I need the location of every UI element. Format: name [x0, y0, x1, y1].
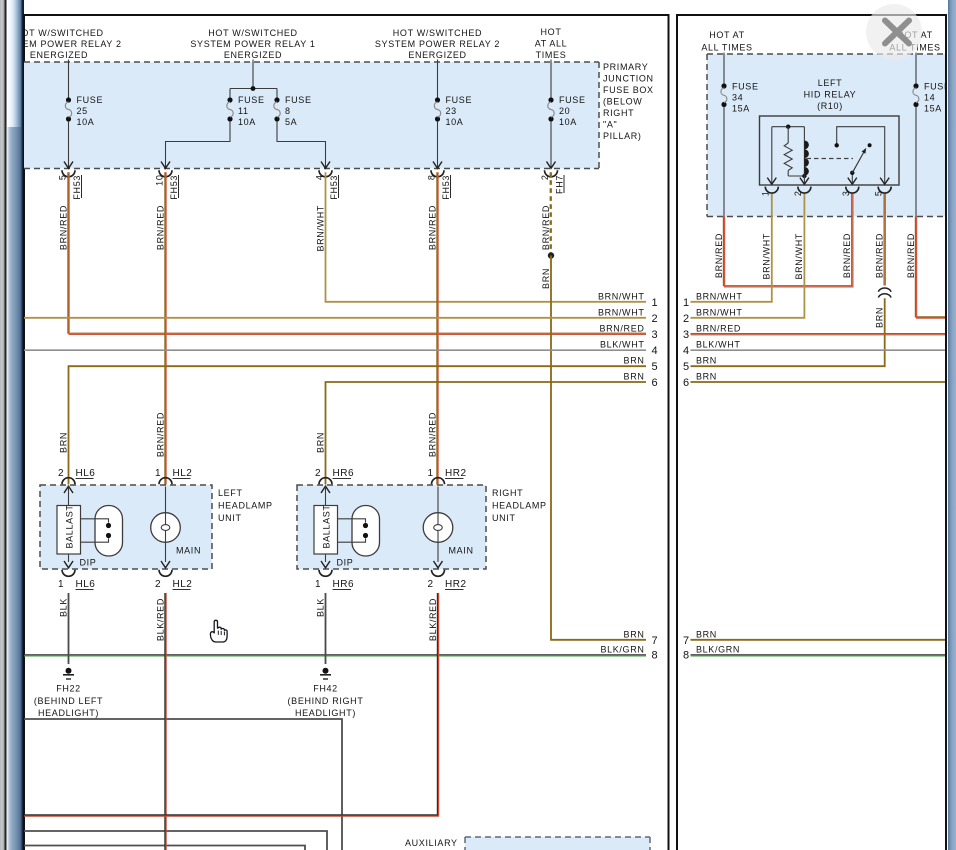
connector FH53 pin 4: [314, 170, 339, 199]
svg-text:HL2: HL2: [173, 468, 193, 479]
dip bulb capsule (left): [81, 506, 123, 557]
pin 2 HL2 (bottom): [155, 570, 192, 590]
svg-text:FUSE: FUSE: [559, 95, 586, 105]
svg-text:HR2: HR2: [445, 579, 467, 590]
svg-text:BRN/WHT: BRN/WHT: [696, 308, 743, 318]
connector FH53 pin 10: [154, 170, 179, 199]
ground FH22: [34, 668, 103, 718]
bus 4 BLK/WHT: [24, 349, 646, 351]
fuse 14 15A: [913, 82, 951, 114]
svg-text:BRN/RED: BRN/RED: [696, 324, 741, 334]
svg-text:HL6: HL6: [76, 468, 96, 479]
svg-text:BRN/RED: BRN/RED: [842, 233, 852, 278]
svg-text:BLK: BLK: [58, 598, 68, 617]
wire HL6 dip branch: [68, 487, 70, 563]
title: hot at all times (above fuse 14): [889, 30, 940, 53]
svg-text:2: 2: [793, 191, 803, 197]
svg-text:2: 2: [427, 579, 433, 590]
svg-text:3: 3: [841, 191, 851, 197]
svg-text:BRN/RED: BRN/RED: [155, 412, 165, 457]
svg-text:10: 10: [154, 175, 164, 186]
svg-text:7: 7: [652, 635, 659, 647]
wire BRN/WHT fuse8 pin4 to bus 1: [326, 172, 647, 301]
svg-text:ENERGIZED: ENERGIZED: [408, 50, 466, 60]
wire fuse 23 to pin 8 with arrow: [433, 121, 442, 168]
mouse hand cursor: [210, 620, 227, 642]
close button: [866, 4, 922, 60]
feeder wire to fuse 20: [550, 60, 552, 101]
feeder wire to fuse 34: [723, 53, 725, 87]
title: hot w/switched system power relay 2 (second): [375, 28, 500, 60]
relay resistor: [784, 127, 804, 176]
bus 4 BLK/WHT (right panel): [691, 349, 946, 351]
bus 7 BRN (right panel): [691, 639, 946, 641]
svg-text:14: 14: [924, 93, 935, 103]
feeder wire to fuse 14: [915, 53, 917, 87]
svg-text:1: 1: [155, 468, 161, 479]
svg-text:(BEHIND LEFT: (BEHIND LEFT: [34, 696, 103, 706]
wire BRN/RED fuse23 pin8 down to right headlamp HR2 pin1: [437, 172, 438, 484]
svg-text:23: 23: [446, 106, 457, 116]
svg-text:FUSE: FUSE: [238, 95, 265, 105]
svg-text:TIMES: TIMES: [536, 50, 567, 60]
svg-text:FH53: FH53: [329, 175, 339, 200]
bus 5 BRN to left headlamp HL6 pin2: [69, 366, 647, 484]
ballast (right): [314, 504, 338, 554]
svg-text:BRN/WHT: BRN/WHT: [696, 292, 743, 302]
svg-text:BRN: BRN: [541, 268, 551, 289]
fuse 20 10A: [548, 95, 586, 127]
wire BLK/RED HR2 pin2 routed left to border: [24, 593, 439, 816]
svg-text:11: 11: [238, 106, 249, 116]
connector FH7 pin 2: [540, 170, 565, 194]
svg-text:UNIT: UNIT: [218, 513, 242, 523]
relay coil: [804, 127, 809, 176]
svg-text:HEADLAMP: HEADLAMP: [492, 501, 547, 511]
svg-text:BRN/RED: BRN/RED: [599, 324, 644, 334]
wire HR6 dip branch: [325, 487, 327, 563]
relay pin 5 internal wire: [837, 127, 890, 185]
wire BRN/RED fuse34 to relay pin3: [723, 194, 853, 287]
bus 6 BRN (right panel): [691, 381, 946, 383]
svg-text:HOT W/SWITCHED: HOT W/SWITCHED: [208, 28, 297, 38]
svg-text:HOT: HOT: [541, 27, 562, 37]
svg-text:FUSE BOX: FUSE BOX: [603, 85, 654, 95]
svg-text:LEFT: LEFT: [218, 488, 243, 498]
relay pin 2 connector: [793, 187, 811, 197]
svg-text:15A: 15A: [732, 104, 750, 114]
wire BRN/RED relay pin5 to inline connector: [884, 194, 885, 286]
relay pin 1 internal wire: [767, 127, 804, 185]
svg-text:8: 8: [426, 175, 436, 181]
svg-text:(BEHIND RIGHT: (BEHIND RIGHT: [288, 696, 364, 706]
wire BRN/RED fuse11 pin10 down to left headlamp HL2 pin1: [165, 172, 166, 484]
node fixed contact: [835, 143, 839, 147]
arrow down to HL6 pin1: [64, 561, 73, 568]
svg-text:FH42: FH42: [313, 684, 338, 694]
svg-text:34: 34: [732, 93, 743, 103]
svg-text:BLK/WHT: BLK/WHT: [600, 340, 645, 350]
svg-text:2: 2: [540, 175, 550, 181]
svg-text:10A: 10A: [559, 117, 577, 127]
fuse 8 5A: [274, 95, 312, 127]
svg-text:FUSE: FUSE: [732, 82, 759, 92]
pin 1 HL6 (bottom): [58, 570, 95, 590]
svg-text:BRN/RED: BRN/RED: [541, 205, 551, 250]
svg-text:BRN/WHT: BRN/WHT: [598, 308, 645, 318]
svg-text:HEADLAMP: HEADLAMP: [218, 501, 273, 511]
svg-text:BRN: BRN: [624, 356, 645, 366]
svg-text:4: 4: [652, 345, 659, 357]
svg-text:BRN: BRN: [624, 372, 645, 382]
svg-text:BLK/GRN: BLK/GRN: [600, 644, 644, 654]
svg-text:BRN: BRN: [624, 629, 645, 639]
svg-text:AUXILIARY: AUXILIARY: [405, 838, 458, 848]
svg-text:BLK/RED: BLK/RED: [428, 598, 438, 641]
svg-text:HID RELAY: HID RELAY: [804, 90, 857, 100]
svg-text:4: 4: [314, 175, 324, 181]
svg-text:MAIN: MAIN: [176, 546, 201, 556]
relay pin 2 internal wire: [800, 176, 809, 184]
svg-text:3: 3: [652, 329, 659, 341]
wire BRN/WHT relay pin1 to bus 1: [691, 194, 772, 302]
svg-text:1: 1: [58, 579, 64, 590]
svg-text:AT ALL: AT ALL: [535, 39, 568, 49]
svg-text:BALLAST: BALLAST: [322, 504, 332, 548]
relay label left hid relay (R10): [804, 78, 857, 111]
feeder wire to fuses 11/8 with junction: [230, 60, 277, 101]
pin 1 HR2 (top): [427, 468, 466, 484]
wire fuse 25 to pin 5 with arrow: [64, 121, 73, 168]
svg-text:10A: 10A: [446, 117, 464, 127]
svg-text:JUNCTION: JUNCTION: [603, 74, 654, 84]
svg-text:6: 6: [683, 377, 690, 389]
svg-text:SYSTEM POWER RELAY 2: SYSTEM POWER RELAY 2: [375, 39, 500, 49]
svg-text:FH53: FH53: [72, 175, 82, 200]
svg-text:BALLAST: BALLAST: [65, 504, 75, 548]
node coil bottom: [802, 174, 806, 178]
right headlamp unit box: [297, 485, 486, 569]
svg-text:PRIMARY: PRIMARY: [603, 62, 648, 72]
arrow down to HR2 pin2: [434, 561, 443, 568]
svg-text:6: 6: [652, 377, 659, 389]
title: hot w/switched system power relay 1: [190, 28, 315, 60]
svg-text:RIGHT: RIGHT: [603, 108, 634, 118]
svg-text:15A: 15A: [924, 104, 942, 114]
dip bulb capsule (right): [338, 506, 380, 557]
svg-text:BRN: BRN: [696, 372, 717, 382]
relay pin 1 connector: [761, 187, 779, 197]
arrow up into HR6 dip branch: [321, 486, 330, 493]
svg-text:PILLAR): PILLAR): [603, 131, 642, 141]
svg-text:FH53: FH53: [169, 175, 179, 200]
bottom partial box B: [24, 831, 327, 850]
svg-text:BRN/RED: BRN/RED: [906, 233, 916, 278]
svg-text:2: 2: [683, 313, 690, 325]
svg-text:FUSE: FUSE: [285, 95, 312, 105]
bus 8 BLK/GRN: [24, 655, 646, 656]
svg-text:5: 5: [652, 361, 659, 373]
svg-text:HR2: HR2: [445, 468, 467, 479]
svg-text:FH22: FH22: [56, 684, 81, 694]
svg-text:BRN/WHT: BRN/WHT: [794, 233, 804, 280]
arrow up into HL6 dip branch: [64, 486, 73, 493]
relay switch pin 3 and arm: [848, 148, 866, 184]
bus numbers left panel: [652, 297, 659, 662]
relay pin 5 connector: [874, 187, 892, 197]
bus 6 BRN to right headlamp HR6 pin2: [326, 382, 647, 485]
connector FH53 pin 5: [57, 170, 82, 199]
fuse box name label: [603, 62, 654, 141]
svg-text:3: 3: [683, 329, 690, 341]
wire BRN/RED dashed from FH7 pin2: [550, 172, 551, 253]
svg-text:BRN/RED: BRN/RED: [155, 205, 165, 250]
svg-text:5A: 5A: [285, 117, 297, 127]
label right headlamp unit: [492, 488, 547, 523]
wire BRN/WHT relay pin2 to bus 2: [691, 194, 805, 318]
left headlamp unit box: [40, 485, 212, 569]
title: hot w/switched system power relay 2 (clipped at left border): [0, 28, 122, 60]
wire BLK HL6 pin1 to ground FH22: [68, 593, 70, 664]
svg-text:"A": "A": [603, 120, 617, 130]
svg-text:FUSE: FUSE: [77, 95, 104, 105]
feeder wire to fuse 23: [437, 60, 439, 101]
pin 2 HL6 (top): [58, 468, 95, 484]
svg-text:SYSTEM POWER RELAY 1: SYSTEM POWER RELAY 1: [190, 39, 315, 49]
connector FH53 pin 8: [426, 170, 451, 199]
right window scrollbar strip: [948, 0, 956, 850]
fuse 25 10A: [65, 95, 103, 127]
bus numbers right panel: [683, 297, 690, 662]
feeder wire to fuse 25: [68, 60, 70, 101]
svg-text:HEADLIGHT): HEADLIGHT): [295, 708, 356, 718]
left window scrollbar strip: [0, 0, 24, 850]
bus labels right panel: [696, 292, 743, 655]
svg-text:BRN: BRN: [696, 629, 717, 639]
svg-text:10A: 10A: [238, 117, 256, 127]
svg-text:BRN/WHT: BRN/WHT: [598, 292, 645, 302]
svg-text:(R10): (R10): [817, 101, 843, 111]
wire BLK HR6 pin1 to ground FH42: [325, 593, 327, 664]
svg-text:(BELOW: (BELOW: [603, 97, 642, 107]
bottom partial box A: [24, 719, 342, 850]
wire fuse 34 inside box: [723, 107, 725, 217]
svg-text:BRN: BRN: [875, 307, 885, 328]
svg-text:HEADLIGHT): HEADLIGHT): [38, 708, 99, 718]
svg-text:8: 8: [683, 650, 690, 662]
svg-text:BRN/RED: BRN/RED: [875, 233, 885, 278]
svg-text:BRN/RED: BRN/RED: [58, 205, 68, 250]
pin 2 HR6 (top): [315, 468, 354, 484]
svg-text:BRN/RED: BRN/RED: [427, 205, 437, 250]
svg-text:BRN/RED: BRN/RED: [427, 412, 437, 457]
svg-text:2: 2: [315, 468, 321, 479]
bus labels left panel: [598, 292, 645, 655]
svg-text:5: 5: [683, 361, 690, 373]
svg-text:10A: 10A: [77, 117, 95, 127]
fuse 34 15A: [721, 82, 759, 114]
svg-text:BRN/RED: BRN/RED: [714, 233, 724, 278]
svg-text:7: 7: [683, 635, 690, 647]
arrow down to HR6 pin1: [321, 561, 330, 568]
right panel frame: [676, 14, 947, 850]
relay switch contact node: [868, 143, 872, 147]
title: hot at all times (left panel): [535, 27, 568, 60]
svg-text:5: 5: [874, 191, 884, 197]
svg-text:1: 1: [761, 191, 771, 197]
wire BRN inline connector to bus 5: [691, 298, 885, 366]
svg-text:BLK: BLK: [315, 598, 325, 617]
bus 3 BRN/RED (right panel): [691, 334, 946, 335]
svg-text:5: 5: [57, 175, 67, 181]
svg-text:2: 2: [652, 313, 659, 325]
auxiliary dashed box (partial): [465, 837, 650, 850]
main bulb (right): [423, 487, 453, 563]
left scrollbar thumb: [7, 0, 21, 127]
wire BRN from junction to bus 7: [551, 256, 646, 640]
svg-text:8: 8: [285, 106, 291, 116]
svg-text:DIP: DIP: [80, 558, 97, 568]
fuse 11 10A: [227, 95, 265, 127]
relay pin 3 connector: [841, 187, 859, 197]
wire fuse 14 inside box: [915, 107, 917, 217]
svg-text:ALL TIMES: ALL TIMES: [701, 43, 752, 53]
svg-text:1: 1: [683, 297, 690, 309]
svg-text:HR6: HR6: [333, 579, 355, 590]
bus 8 BLK/GRN (right panel): [691, 655, 946, 656]
op: left hid relay box R10: [760, 116, 900, 185]
main bulb (left): [151, 487, 181, 563]
svg-text:1: 1: [652, 297, 659, 309]
svg-text:FH7: FH7: [554, 175, 564, 194]
svg-text:BRN: BRN: [58, 432, 68, 453]
svg-text:SYSTEM POWER RELAY 2: SYSTEM POWER RELAY 2: [0, 39, 122, 49]
svg-text:1: 1: [315, 579, 321, 590]
svg-text:UNIT: UNIT: [492, 513, 516, 523]
svg-text:HOT W/SWITCHED: HOT W/SWITCHED: [14, 28, 103, 38]
bus 2 BRN/WHT: [24, 317, 646, 319]
svg-text:HOT W/SWITCHED: HOT W/SWITCHED: [393, 28, 482, 38]
wire fuse 11 to pin 10 with arrow: [161, 121, 230, 168]
svg-text:25: 25: [77, 106, 88, 116]
inline connector on pin5 wire: [878, 288, 891, 298]
wire BRN/RED fuse25 pin5 to bus 3: [68, 172, 646, 334]
primary junction fuse box (left, dashed, blue fill): [24, 62, 599, 169]
svg-text:BLK/WHT: BLK/WHT: [696, 340, 741, 350]
arrow down to HL2 pin2: [161, 561, 170, 568]
left panel frame: [23, 14, 670, 850]
svg-text:LEFT: LEFT: [818, 78, 843, 88]
svg-text:DIP: DIP: [337, 558, 354, 568]
svg-text:BLK/GRN: BLK/GRN: [696, 644, 740, 654]
wire BLK/RED HL2 pin2 down off page: [165, 593, 166, 850]
relay dashed actuator link: [807, 158, 854, 160]
svg-text:HOT AT: HOT AT: [709, 30, 745, 40]
svg-text:4: 4: [683, 345, 690, 357]
svg-text:MAIN: MAIN: [449, 546, 474, 556]
pin 1 HL2 (top): [155, 468, 192, 484]
node coil top: [786, 125, 790, 129]
svg-text:HL2: HL2: [173, 579, 193, 590]
title: hot at all times (above fuse 34): [701, 30, 752, 53]
svg-text:BRN: BRN: [315, 432, 325, 453]
svg-text:BLK/RED: BLK/RED: [155, 598, 165, 641]
svg-text:FUSE: FUSE: [446, 95, 473, 105]
svg-text:2: 2: [58, 468, 64, 479]
label left headlamp unit: [218, 488, 273, 523]
wire fuse 20 to pin 2 with arrow: [547, 121, 556, 168]
svg-text:ENERGIZED: ENERGIZED: [224, 50, 282, 60]
node junction fuses 11/8: [251, 86, 256, 91]
svg-text:20: 20: [559, 106, 570, 116]
svg-text:FH53: FH53: [441, 175, 451, 200]
bottom partial box C: [24, 846, 305, 850]
svg-text:BRN/WHT: BRN/WHT: [315, 205, 325, 252]
svg-text:RIGHT: RIGHT: [492, 488, 523, 498]
svg-text:2: 2: [155, 579, 161, 590]
ground FH42: [288, 668, 364, 718]
pin 1 HR6 (bottom): [315, 570, 354, 590]
underhood fuse box (right, dashed, blue fill): [707, 54, 945, 217]
svg-text:HL6: HL6: [76, 579, 96, 590]
ballast (left): [57, 504, 81, 554]
svg-text:1: 1: [427, 468, 433, 479]
svg-text:BRN: BRN: [696, 356, 717, 366]
svg-text:BRN/WHT: BRN/WHT: [762, 233, 772, 280]
svg-text:HR6: HR6: [333, 468, 355, 479]
fuse 23 10A: [434, 95, 472, 127]
wire BRN/RED fuse14 to right edge: [915, 217, 945, 319]
svg-text:ENERGIZED: ENERGIZED: [30, 50, 88, 60]
wire fuse 8 to pin 4 with arrow: [277, 121, 330, 168]
pin 2 HR2 (bottom): [427, 570, 466, 590]
node junction BRN: [548, 252, 554, 258]
svg-text:8: 8: [652, 650, 659, 662]
